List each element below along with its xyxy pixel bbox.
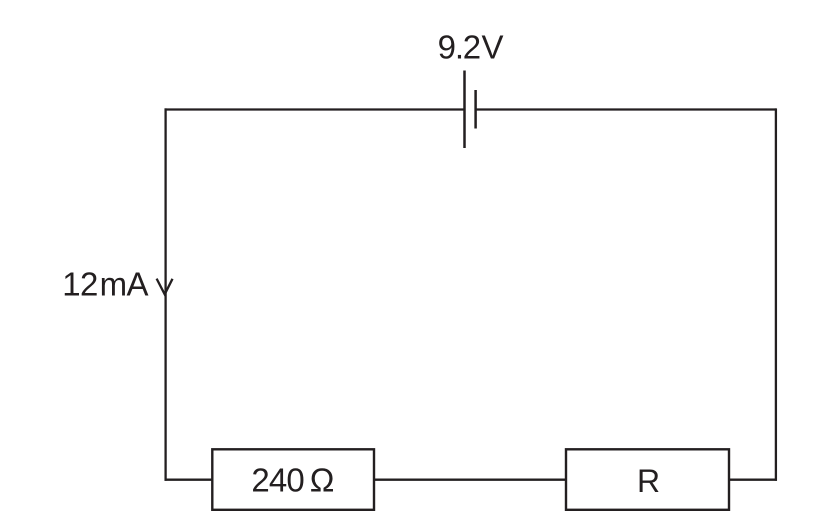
battery V1 long plate: [463, 71, 466, 149]
resistor 240 ohm box: [212, 449, 374, 510]
svg-text:12 mA: 12 mA: [62, 266, 148, 303]
wire bottom: [165, 479, 778, 481]
svg-text:R: R: [637, 463, 660, 499]
battery V1 short plate: [474, 90, 477, 129]
wire top right segment: [476, 108, 776, 110]
wire left side: [164, 108, 166, 480]
svg-text:9.2 V: 9.2 V: [438, 29, 504, 66]
current arrow on left wire: [157, 279, 173, 295]
svg-text:240 Ω: 240 Ω: [251, 462, 333, 499]
resistor R box: [566, 449, 729, 510]
wire right side: [775, 108, 777, 480]
wire top left segment: [165, 108, 465, 110]
